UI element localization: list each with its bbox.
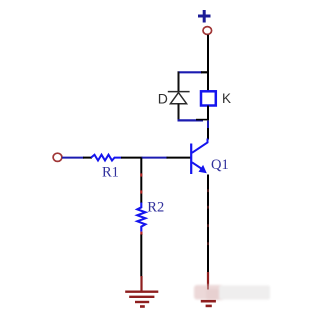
wire ground stub red: [140, 276, 142, 291]
red tick 6: [207, 224, 209, 227]
resistor R1: [91, 155, 122, 161]
svg-text:Q1: Q1: [211, 157, 229, 173]
svg-text:D: D: [158, 91, 168, 107]
wire faint through blob: [207, 285, 209, 290]
wire diode branch top: [178, 72, 180, 92]
plus supply symbol: [198, 10, 211, 23]
red tick 7: [207, 242, 209, 245]
resistor R2: [137, 203, 145, 232]
emitter arrowhead: [199, 165, 207, 173]
diode D: [168, 92, 190, 104]
ground right partial: [201, 301, 216, 306]
wire R2 to ground: [140, 235, 142, 277]
svg-text:K: K: [222, 91, 231, 106]
ground left: [125, 292, 158, 307]
wire emitter ground stub red: [207, 272, 209, 295]
wire input lead: [62, 157, 84, 159]
wire relay to rail: [207, 106, 209, 121]
svg-text:R1: R1: [102, 165, 119, 181]
wire node down to R2: [140, 158, 142, 203]
relay coil K: [201, 91, 216, 105]
terminal top: [203, 27, 212, 35]
wire base black: [167, 157, 191, 159]
red tick 5: [207, 206, 209, 209]
svg-text:R2: R2: [147, 200, 164, 216]
red tick 2: [140, 190, 142, 193]
wire emitter down: [207, 175, 209, 275]
wire node to base navy: [142, 157, 168, 159]
watermark blob: [194, 285, 270, 300]
transistor Q1: [191, 139, 207, 175]
wire R1 to node: [121, 157, 143, 159]
wire bottom rail: [178, 119, 204, 121]
red tick 1: [140, 173, 142, 176]
red tick 3: [140, 232, 142, 235]
wire diode branch bottom: [178, 104, 180, 121]
terminal input: [53, 153, 62, 161]
red tick 4: [207, 189, 209, 192]
wire supply to rail: [207, 35, 209, 73]
wire rail to relay: [207, 73, 209, 92]
wire collector black: [207, 128, 209, 140]
wire top rail: [178, 71, 203, 73]
wire collector stub blue: [207, 121, 209, 130]
